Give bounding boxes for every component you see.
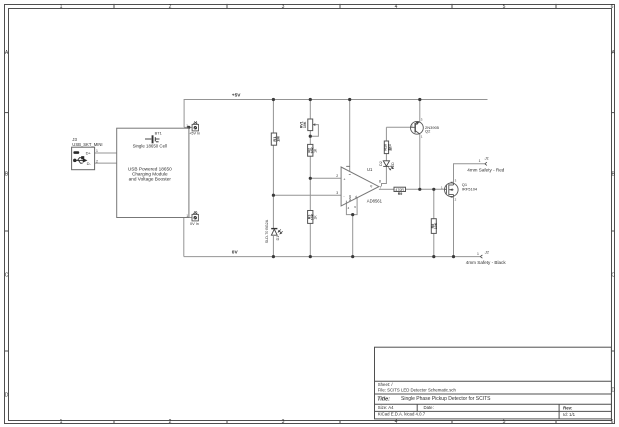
- resistor R3: [308, 211, 318, 224]
- svg-text:6: 6: [354, 205, 356, 209]
- node +5V/pot: [309, 98, 312, 101]
- op-amp U1 AD8561: [336, 166, 382, 210]
- wire gate pulldown bottom: [433, 233, 435, 256]
- wire D2 to pin8: [382, 166, 387, 186]
- svg-text:3: 3: [421, 117, 423, 121]
- svg-text:Sheet: /: Sheet: /: [378, 382, 394, 387]
- svg-text:File: SCITS LED Detector Schem: File: SCITS LED Detector Schematic.sch: [378, 388, 457, 393]
- battery BT1: [145, 130, 162, 143]
- svg-text:1: 1: [479, 159, 481, 163]
- wire pot wiper loop: [310, 125, 318, 137]
- wire Q2 emitter: [419, 100, 421, 122]
- svg-text:1K: 1K: [313, 148, 317, 153]
- svg-text:SLD-70 BG2A: SLD-70 BG2A: [265, 219, 269, 243]
- wire +5V rail: [184, 100, 487, 128]
- svg-text:3: 3: [336, 191, 338, 195]
- mosfet Q1 IRF5104: [441, 178, 478, 201]
- svg-text:Rev:: Rev:: [563, 406, 573, 411]
- title block: [375, 347, 612, 419]
- wire Q2 collector: [419, 134, 421, 189]
- wire Q2 base: [386, 126, 410, 128]
- resistor R10: [384, 141, 394, 154]
- svg-text:1: 1: [477, 252, 479, 256]
- module box U2 charging module: [117, 128, 189, 217]
- connector J4 +5V In: [186, 120, 200, 135]
- svg-text:1: 1: [186, 124, 188, 128]
- wire J3 D-: [95, 162, 117, 164]
- svg-text:4: 4: [395, 4, 398, 10]
- svg-text:R9: R9: [398, 192, 403, 196]
- node pot wiper: [309, 135, 312, 138]
- svg-text:0V: 0V: [232, 250, 239, 256]
- svg-text:4: 4: [395, 419, 398, 425]
- wire base to R10: [385, 127, 387, 141]
- wire opamp output: [379, 188, 394, 190]
- node 0V/D1: [272, 255, 275, 258]
- svg-text:2: 2: [169, 419, 172, 425]
- svg-text:2: 2: [411, 123, 413, 127]
- svg-text:1: 1: [186, 214, 188, 218]
- svg-text:and Voltage Booster: and Voltage Booster: [129, 177, 172, 182]
- svg-text:2: 2: [169, 4, 172, 10]
- svg-text:Title:: Title:: [377, 397, 390, 403]
- svg-text:IRF5104: IRF5104: [462, 186, 478, 191]
- svg-text:6: 6: [611, 419, 614, 425]
- wire pot top: [309, 100, 311, 120]
- svg-text:6: 6: [611, 4, 614, 10]
- wire R3 to 0V: [309, 223, 311, 256]
- wire column R1 to node3: [272, 145, 274, 229]
- svg-text:2: 2: [96, 159, 98, 163]
- svg-text:3: 3: [282, 419, 285, 425]
- svg-text:10K: 10K: [434, 222, 438, 229]
- svg-text:-: -: [343, 195, 345, 199]
- wire opamp gnd to 0V: [352, 215, 354, 257]
- wire R9 to gate: [406, 188, 445, 190]
- node J4 stub: [187, 126, 190, 129]
- svg-text:Size: A4: Size: A4: [378, 405, 394, 410]
- svg-text:D: D: [5, 393, 9, 399]
- wire 0V rail: [184, 256, 481, 258]
- svg-text:1: 1: [60, 419, 63, 425]
- wire node2 to opamp pin2: [310, 177, 341, 179]
- svg-text:C: C: [611, 273, 615, 279]
- svg-text:Id: 1/1: Id: 1/1: [563, 412, 576, 417]
- node 0V/R3: [309, 255, 312, 258]
- svg-text:AD8561: AD8561: [367, 199, 383, 204]
- wire R2 to R3: [309, 156, 311, 210]
- svg-text:1: 1: [96, 149, 98, 153]
- potentiometer RV1: [300, 119, 316, 131]
- svg-text:D+: D+: [86, 151, 92, 156]
- svg-text:J5: J5: [193, 210, 197, 214]
- svg-text:KiCad E.D.A. kicad 4.0.7: KiCad E.D.A. kicad 4.0.7: [378, 411, 426, 416]
- wire opamp gnd pins: [346, 198, 357, 215]
- node 0V/opamp: [351, 255, 354, 258]
- node 0V/Q1s: [452, 255, 455, 258]
- svg-text:10K: 10K: [303, 121, 307, 128]
- svg-text:Single 18650 Cell: Single 18650 Cell: [133, 143, 167, 148]
- connector J3 USB_SKT_MINI: [72, 137, 103, 170]
- wire 0V riser: [183, 218, 185, 257]
- svg-text:1: 1: [421, 135, 423, 139]
- connector J5 0V In: [186, 210, 198, 225]
- node +5V/R1: [272, 98, 275, 101]
- wire column R1 top: [272, 100, 274, 134]
- node 0V/pulldown: [432, 255, 435, 258]
- svg-text:D-: D-: [87, 161, 92, 166]
- svg-text:V-: V-: [354, 195, 358, 198]
- wire Q1 drain to J1: [454, 164, 485, 184]
- node pin2: [309, 177, 312, 180]
- svg-text:1M: 1M: [276, 136, 281, 142]
- wire J5 stub: [184, 217, 192, 219]
- svg-text:J4: J4: [193, 120, 197, 124]
- svg-text:+: +: [343, 177, 346, 181]
- wire node3 to opamp pin3: [273, 194, 341, 196]
- wire Q1 source to 0V: [453, 196, 455, 256]
- svg-text:4mm Safety - Black: 4mm Safety - Black: [466, 260, 507, 265]
- svg-text:LED: LED: [391, 162, 395, 169]
- svg-text:0V In: 0V In: [190, 222, 199, 226]
- resistor R8 gate pulldown: [431, 219, 438, 234]
- svg-text:Single Phase Pickup Detector f: Single Phase Pickup Detector for SCITS: [401, 396, 491, 402]
- LED D2: [379, 161, 395, 170]
- svg-text:5: 5: [503, 419, 506, 425]
- svg-text:2: 2: [336, 174, 338, 178]
- wire J4 stub: [184, 126, 192, 128]
- svg-text:1K: 1K: [313, 215, 317, 220]
- svg-text:+5V In: +5V In: [189, 132, 200, 136]
- svg-text:3: 3: [455, 178, 457, 182]
- svg-text:8: 8: [379, 180, 381, 184]
- svg-text:4mm Safety - Red: 4mm Safety - Red: [467, 168, 504, 173]
- resistor R1: [271, 133, 280, 145]
- svg-text:2K: 2K: [389, 146, 393, 151]
- wire pot to R2: [309, 131, 311, 145]
- svg-text:BT1: BT1: [155, 130, 162, 135]
- node pin3: [272, 194, 275, 197]
- svg-text:Q: Q: [370, 184, 373, 188]
- node gate/pulldown: [432, 188, 435, 191]
- node out/Q2c: [418, 188, 421, 191]
- svg-text:U1: U1: [367, 167, 373, 172]
- connector pin J2: [466, 249, 507, 265]
- wire gate pulldown top: [433, 189, 435, 218]
- svg-text:GND: GND: [348, 195, 352, 201]
- wire R10 to D2: [385, 154, 387, 161]
- svg-text:+5V: +5V: [232, 93, 241, 99]
- svg-text:D: D: [611, 388, 615, 394]
- photodiode D1: [265, 219, 283, 243]
- svg-text:D1: D1: [276, 236, 280, 241]
- svg-text:2: 2: [455, 197, 457, 201]
- wire J3 D+: [95, 152, 117, 154]
- wire opamp V+: [349, 100, 351, 172]
- svg-text:3: 3: [282, 4, 285, 10]
- svg-text:Date:: Date:: [424, 405, 434, 410]
- resistor R9 470R horizontal: [394, 187, 406, 196]
- svg-text:7: 7: [380, 185, 382, 189]
- wire D1 to 0V: [272, 236, 274, 257]
- svg-text:D2: D2: [379, 161, 383, 166]
- node +5V/Q2e: [418, 98, 421, 101]
- transistor Q2 2N3905: [411, 117, 440, 138]
- svg-text:Q2: Q2: [425, 129, 431, 134]
- svg-text:4: 4: [348, 206, 350, 210]
- svg-text:5: 5: [503, 4, 506, 10]
- svg-text:USB_SKT_MINI: USB_SKT_MINI: [72, 142, 102, 147]
- svg-text:J2: J2: [484, 249, 490, 254]
- svg-text:J1: J1: [484, 156, 489, 161]
- svg-text:1: 1: [60, 4, 63, 10]
- svg-text:C: C: [5, 273, 9, 279]
- connector pin J1: [467, 156, 504, 173]
- node opamp gnd: [351, 213, 354, 216]
- resistor R2: [308, 144, 318, 156]
- node +5V/V+: [348, 98, 351, 101]
